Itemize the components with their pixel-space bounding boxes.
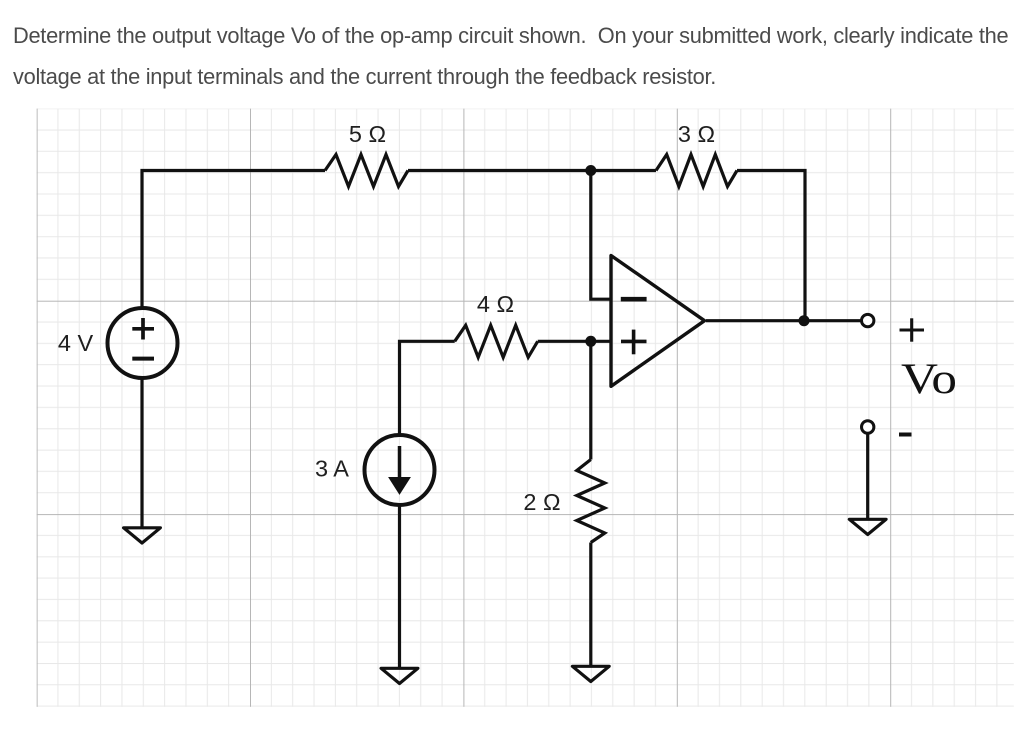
op-amp inverting input minus symbol	[621, 297, 647, 302]
wire from Vo minus terminal to ground	[866, 434, 869, 520]
svg-text:3 Ω: 3 Ω	[678, 121, 715, 147]
wire from 3-ohm resistor to right corner and down to output	[737, 171, 805, 321]
ground for 3A source	[381, 668, 418, 683]
voltage source plus symbol	[132, 318, 154, 340]
resistor 2Ω vertical zigzag	[577, 460, 605, 543]
terminal Vo minus open circle	[862, 421, 874, 433]
ground for Vo minus terminal	[849, 519, 886, 534]
svg-text:3 A: 3 A	[315, 456, 349, 482]
resistor 3Ω zigzag	[656, 155, 737, 187]
node A junction dot	[585, 165, 596, 176]
wire from 5-ohm resistor to 3-ohm resistor	[408, 169, 656, 172]
resistor 5Ω zigzag	[325, 155, 408, 187]
wire top-left from source to 5-ohm resistor	[142, 171, 325, 309]
svg-text:Vo: Vo	[901, 355, 957, 403]
svg-text:4 V: 4 V	[58, 330, 94, 356]
label Vo minus sign	[899, 433, 912, 437]
wire from 4V source bottom to ground	[140, 378, 143, 528]
wire from node B down to 2-ohm resistor	[589, 341, 592, 459]
terminal Vo plus open circle	[862, 314, 874, 326]
wire from 4-ohm resistor to op-amp non-inverting input	[538, 340, 611, 343]
voltage source minus symbol	[132, 357, 154, 361]
op-amp U1 triangle	[611, 256, 705, 387]
op-amp output wire	[706, 319, 862, 322]
svg-text:2 Ω: 2 Ω	[523, 489, 560, 515]
ground for 4V source	[124, 528, 161, 543]
resistor 4Ω zigzag	[455, 325, 538, 357]
svg-text:4 Ω: 4 Ω	[477, 291, 514, 317]
node C output junction dot	[799, 315, 810, 326]
wire from 2-ohm resistor to ground	[589, 543, 592, 667]
label Vo plus sign	[900, 318, 925, 341]
wire from 3A source bottom to ground	[398, 505, 401, 668]
ground for 2-ohm resistor	[572, 666, 609, 681]
voltage source 4V circle	[108, 308, 178, 378]
node B junction dot	[585, 336, 596, 347]
wire from 3A source top to 4-ohm resistor	[400, 341, 455, 435]
current source arrow	[389, 446, 410, 494]
op-amp non-inverting input plus symbol	[621, 330, 647, 355]
current source 3A circle	[365, 435, 435, 505]
svg-text:5 Ω: 5 Ω	[349, 121, 386, 147]
wire from node A down to op-amp inverting input	[591, 171, 612, 300]
